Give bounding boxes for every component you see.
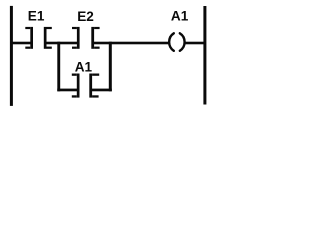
wire: E2 to coil A1 (94, 42, 169, 45)
branch wire: right vertical drop (109, 42, 112, 92)
contact A1 (NO, seal-in branch) (72, 74, 99, 98)
wire: left rail to contact E1 (12, 42, 31, 45)
coil A1 (169, 33, 184, 51)
svg-text:E2: E2 (77, 9, 94, 24)
wire: E1 to E2 (branch node) (46, 42, 78, 45)
svg-text:A1: A1 (171, 9, 189, 24)
left power rail (10, 6, 13, 106)
contact E2 (NO) (72, 27, 100, 49)
right power rail (203, 6, 206, 105)
contact E1 (NO) (25, 27, 52, 49)
svg-text:E1: E1 (28, 9, 45, 24)
svg-text:A1: A1 (75, 60, 93, 75)
branch wire: lower rung right segment (92, 89, 112, 92)
branch wire: left vertical drop (57, 42, 60, 92)
wire: coil to right rail (185, 42, 204, 45)
branch wire: lower rung left segment (57, 89, 77, 92)
